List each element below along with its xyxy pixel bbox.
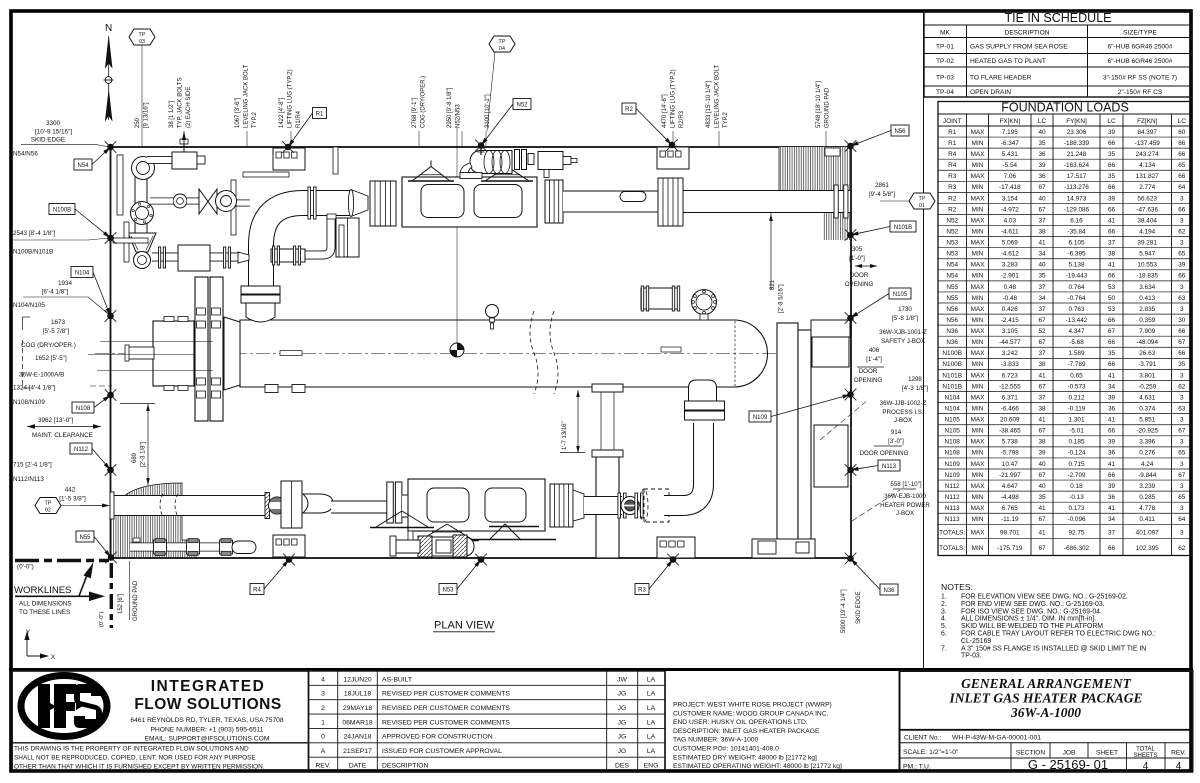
svg-text:DES: DES bbox=[615, 762, 629, 769]
maint clearance arrows bbox=[27, 426, 101, 428]
svg-text:TP-03: TP-03 bbox=[936, 75, 954, 82]
svg-text:REVISED PER CUSTOMER COMMENTS: REVISED PER CUSTOMER COMMENTS bbox=[382, 705, 510, 712]
svg-text:LC: LC bbox=[1107, 118, 1116, 125]
svg-text:OPENING: OPENING bbox=[854, 377, 883, 384]
svg-text:1298: 1298 bbox=[908, 376, 922, 383]
svg-text:1'-7 13/16": 1'-7 13/16" bbox=[562, 421, 568, 450]
svg-text:R4: R4 bbox=[948, 151, 957, 158]
svg-text:FOR CABLE TRAY LAYOUT REFER TO: FOR CABLE TRAY LAYOUT REFER TO ELECTRIC … bbox=[961, 631, 1156, 638]
svg-text:14.973: 14.973 bbox=[1067, 195, 1087, 202]
svg-text:0.374: 0.374 bbox=[1139, 405, 1155, 412]
svg-text:MIN: MIN bbox=[972, 140, 984, 147]
svg-text:CLIENT No.:: CLIENT No.: bbox=[904, 735, 941, 742]
svg-text:01: 01 bbox=[919, 203, 925, 209]
svg-text:50: 50 bbox=[1108, 295, 1116, 302]
svg-text:-4.612: -4.612 bbox=[1001, 251, 1020, 258]
svg-text:N53: N53 bbox=[946, 240, 958, 247]
svg-text:20.609: 20.609 bbox=[1000, 417, 1020, 424]
svg-text:REV.: REV. bbox=[315, 762, 330, 769]
svg-text:38: 38 bbox=[1038, 405, 1046, 412]
svg-text:0.48: 0.48 bbox=[1004, 284, 1017, 291]
pipe box1 to flange block bbox=[563, 191, 660, 213]
svg-text:MK: MK bbox=[940, 30, 950, 37]
vessel centerline bbox=[95, 353, 785, 355]
svg-text:3300: 3300 bbox=[46, 120, 61, 127]
svg-text:18JUL18: 18JUL18 bbox=[344, 691, 371, 698]
svg-text:-163.624: -163.624 bbox=[1064, 162, 1090, 169]
svg-text:62: 62 bbox=[1178, 228, 1186, 235]
svg-text:34: 34 bbox=[1108, 516, 1116, 523]
svg-text:41: 41 bbox=[1038, 372, 1046, 379]
svg-text:MAX: MAX bbox=[971, 328, 986, 335]
svg-text:-6.347: -6.347 bbox=[1001, 140, 1020, 147]
svg-text:FOUNDATION LOADS: FOUNDATION LOADS bbox=[1001, 101, 1129, 115]
svg-text:4.194: 4.194 bbox=[1139, 228, 1155, 235]
svg-text:MAX: MAX bbox=[971, 195, 986, 202]
svg-text:4: 4 bbox=[321, 676, 325, 683]
svg-text:OPENING: OPENING bbox=[845, 281, 874, 288]
svg-text:-17.418: -17.418 bbox=[999, 184, 1021, 191]
svg-text:INLET GAS HEATER PACKAGE: INLET GAS HEATER PACKAGE bbox=[949, 691, 1143, 706]
svg-text:JOINT: JOINT bbox=[943, 118, 962, 125]
svg-text:-20.925: -20.925 bbox=[1136, 428, 1158, 435]
drain drop from top train bbox=[276, 216, 331, 255]
svg-text:COG (DRY/OPER.): COG (DRY/OPER.) bbox=[21, 342, 76, 349]
svg-text:-5.54: -5.54 bbox=[1003, 162, 1018, 169]
svg-text:3: 3 bbox=[321, 691, 325, 698]
svg-text:J-BOX: J-BOX bbox=[896, 510, 914, 517]
tie-in schedule table bbox=[924, 12, 1192, 98]
svg-text:N52: N52 bbox=[516, 102, 528, 108]
svg-text:MIN: MIN bbox=[972, 361, 984, 368]
svg-text:-0.096: -0.096 bbox=[1067, 516, 1086, 523]
svg-text:36W-A-1000: 36W-A-1000 bbox=[1010, 705, 1081, 720]
funnel drain bbox=[128, 233, 156, 252]
svg-text:-11.19: -11.19 bbox=[1001, 516, 1019, 523]
svg-text:64: 64 bbox=[1178, 516, 1186, 523]
svg-text:3.239: 3.239 bbox=[1139, 483, 1155, 490]
svg-text:401.097: 401.097 bbox=[1136, 530, 1160, 537]
svg-text:FOR ISO VIEW SEE DWG. NO.: G-2: FOR ISO VIEW SEE DWG. NO.: G-25169-04. bbox=[961, 608, 1102, 615]
svg-text:67: 67 bbox=[1178, 339, 1186, 346]
svg-text:N104: N104 bbox=[945, 394, 961, 401]
svg-text:41: 41 bbox=[1108, 217, 1116, 224]
svg-text:3.801: 3.801 bbox=[1139, 372, 1155, 379]
svg-text:N109: N109 bbox=[753, 415, 768, 421]
svg-text:CL-25169: CL-25169 bbox=[961, 638, 991, 645]
svg-text:MAX: MAX bbox=[971, 372, 986, 379]
svg-text:66: 66 bbox=[1108, 339, 1116, 346]
svg-text:MAINT. CLEARANCE: MAINT. CLEARANCE bbox=[32, 432, 93, 439]
svg-text:1.: 1. bbox=[941, 594, 947, 601]
svg-text:MAX: MAX bbox=[971, 151, 986, 158]
svg-text:-5.01: -5.01 bbox=[1069, 428, 1084, 435]
svg-text:(2) EACH SIDE: (2) EACH SIDE bbox=[186, 87, 192, 128]
svg-text:1: 1 bbox=[321, 719, 325, 726]
svg-text:38: 38 bbox=[1038, 228, 1046, 235]
process jbox bbox=[814, 425, 848, 487]
svg-text:65: 65 bbox=[1178, 251, 1186, 258]
COG symbol bbox=[450, 343, 464, 357]
svg-text:N52/N53: N52/N53 bbox=[456, 104, 462, 128]
svg-text:4.03: 4.03 bbox=[1004, 217, 1017, 224]
svg-text:37: 37 bbox=[1108, 530, 1116, 537]
svg-text:N55: N55 bbox=[79, 535, 91, 541]
svg-text:FZ[KN]: FZ[KN] bbox=[1137, 118, 1157, 125]
svg-text:152 [6"]: 152 [6"] bbox=[118, 593, 124, 614]
svg-text:X: X bbox=[51, 654, 56, 661]
svg-text:3.283: 3.283 bbox=[1002, 262, 1018, 269]
svg-text:7.06: 7.06 bbox=[1004, 173, 1017, 180]
svg-text:CUSTOMER NAME: WOOD GROUP CANA: CUSTOMER NAME: WOOD GROUP CANADA INC. bbox=[673, 710, 829, 717]
svg-text:3.105: 3.105 bbox=[1002, 328, 1018, 335]
svg-text:[6'-4 1/8"]: [6'-4 1/8"] bbox=[42, 289, 69, 296]
svg-text:06MAR18: 06MAR18 bbox=[342, 719, 372, 726]
svg-text:A 3" 150# SS FLANGE IS INSTALL: A 3" 150# SS FLANGE IS INSTALLED @ SKID … bbox=[961, 645, 1146, 652]
reducer cone bbox=[224, 317, 240, 390]
svg-text:LC: LC bbox=[1178, 118, 1187, 125]
svg-text:34: 34 bbox=[1108, 383, 1116, 390]
svg-text:35: 35 bbox=[1178, 361, 1186, 368]
svg-text:WH-P-43W-M-GA-00001-001: WH-P-43W-M-GA-00001-001 bbox=[952, 735, 1041, 742]
N109 riser elbow bbox=[664, 423, 704, 506]
svg-text:PROCESS I.S.: PROCESS I.S. bbox=[882, 409, 924, 416]
svg-text:40: 40 bbox=[1038, 129, 1046, 136]
svg-text:TP-01: TP-01 bbox=[936, 44, 954, 51]
svg-text:FLOW SOLUTIONS: FLOW SOLUTIONS bbox=[134, 696, 281, 713]
svg-text:-113.276: -113.276 bbox=[1064, 184, 1089, 191]
svg-text:35: 35 bbox=[1108, 151, 1116, 158]
svg-text:66: 66 bbox=[1178, 140, 1186, 147]
svg-text:1.301: 1.301 bbox=[1069, 417, 1085, 424]
svg-text:41: 41 bbox=[1108, 417, 1116, 424]
svg-text:3.634: 3.634 bbox=[1139, 284, 1155, 291]
vessel left nozzle stub bbox=[128, 347, 154, 359]
svg-text:GROUND PAD: GROUND PAD bbox=[825, 87, 831, 128]
svg-text:67: 67 bbox=[1038, 206, 1046, 213]
svg-text:DOOR OPENING: DOOR OPENING bbox=[860, 450, 909, 457]
svg-text:29MAY18: 29MAY18 bbox=[343, 705, 373, 712]
svg-text:0.426: 0.426 bbox=[1002, 306, 1018, 313]
svg-text:FOR END VIEW SEE DWG. NO.: G-2: FOR END VIEW SEE DWG. NO.: G-25169-03. bbox=[961, 601, 1105, 608]
svg-text:CUSTOMER PO#: 10141401-408.0: CUSTOMER PO#: 10141401-408.0 bbox=[673, 746, 779, 753]
svg-text:66: 66 bbox=[1178, 273, 1186, 280]
svg-text:[5'-5 7/8"]: [5'-5 7/8"] bbox=[43, 328, 70, 335]
reducer to box1 bbox=[352, 190, 368, 216]
svg-text:N113: N113 bbox=[945, 516, 960, 523]
svg-text:EMAIL: SUPPORT@IFSOLUTIONS.COM: EMAIL: SUPPORT@IFSOLUTIONS.COM bbox=[145, 736, 270, 743]
svg-text:37: 37 bbox=[1108, 240, 1116, 247]
svg-text:N112: N112 bbox=[945, 494, 960, 501]
svg-text:FOR ELEVATION VIEW SEE DWG. NO: FOR ELEVATION VIEW SEE DWG. NO.: G-25169… bbox=[961, 594, 1128, 601]
drain line along bottom bbox=[130, 543, 242, 552]
svg-text:37: 37 bbox=[1038, 350, 1046, 357]
dashed removable spool bbox=[644, 489, 669, 522]
svg-text:38: 38 bbox=[1038, 439, 1046, 446]
svg-text:-129.086: -129.086 bbox=[1064, 206, 1090, 213]
svg-text:TP: TP bbox=[919, 196, 926, 202]
svg-text:67: 67 bbox=[1038, 428, 1046, 435]
svg-text:N100B: N100B bbox=[942, 361, 962, 368]
svg-text:N54: N54 bbox=[77, 163, 89, 169]
top dim extension lines bbox=[141, 131, 143, 146]
tray top bracket bbox=[811, 320, 850, 337]
svg-text:N55: N55 bbox=[946, 295, 958, 302]
svg-text:2768 [9'-1"]: 2768 [9'-1"] bbox=[412, 97, 418, 128]
svg-text:2.: 2. bbox=[941, 601, 947, 608]
svg-text:0.764: 0.764 bbox=[1069, 284, 1085, 291]
svg-text:A: A bbox=[321, 748, 326, 755]
svg-text:JG: JG bbox=[618, 719, 627, 726]
svg-text:35: 35 bbox=[1108, 173, 1116, 180]
svg-text:END USER: HUSKY OIL OPERATIONS: END USER: HUSKY OIL OPERATIONS LTD. bbox=[673, 719, 808, 726]
heater vessel shell bbox=[240, 320, 768, 387]
svg-text:1422 [4'-8"]: 1422 [4'-8"] bbox=[279, 97, 285, 128]
svg-text:02: 02 bbox=[45, 507, 51, 513]
svg-text:7.: 7. bbox=[941, 645, 947, 652]
svg-text:TP: TP bbox=[45, 500, 52, 506]
svg-text:243.274: 243.274 bbox=[1136, 151, 1160, 158]
svg-text:JOB: JOB bbox=[1063, 750, 1076, 757]
svg-text:0.212: 0.212 bbox=[1069, 394, 1085, 401]
svg-text:36W-E-1000A/B: 36W-E-1000A/B bbox=[19, 372, 64, 379]
svg-text:39: 39 bbox=[1038, 450, 1046, 457]
svg-text:38 [1 1/2"]: 38 [1 1/2"] bbox=[169, 101, 175, 128]
svg-text:ISSUED FOR CUSTOMER APPROVAL: ISSUED FOR CUSTOMER APPROVAL bbox=[382, 748, 502, 755]
svg-text:-0.13: -0.13 bbox=[1069, 494, 1084, 501]
svg-text:N109: N109 bbox=[945, 472, 961, 479]
TP-02 hex bbox=[35, 498, 61, 514]
svg-text:715 [2'-4 1/8"]: 715 [2'-4 1/8"] bbox=[13, 462, 52, 469]
svg-text:30: 30 bbox=[1178, 317, 1186, 324]
XY axis bbox=[26, 636, 28, 656]
svg-text:N55: N55 bbox=[946, 284, 958, 291]
svg-text:102.395: 102.395 bbox=[1136, 545, 1160, 552]
svg-text:3.: 3. bbox=[941, 608, 947, 615]
svg-text:(0'-0"): (0'-0") bbox=[99, 612, 105, 627]
svg-text:HEATER POWER: HEATER POWER bbox=[880, 502, 930, 509]
svg-text:4: 4 bbox=[1143, 761, 1149, 772]
svg-text:4.631: 4.631 bbox=[1139, 394, 1155, 401]
svg-text:37: 37 bbox=[1038, 306, 1046, 313]
svg-text:66: 66 bbox=[1108, 545, 1116, 552]
node dots bbox=[107, 144, 114, 151]
suction pipe end plate bbox=[110, 492, 114, 519]
svg-text:N105: N105 bbox=[893, 292, 908, 298]
svg-text:DOOR: DOOR bbox=[850, 272, 869, 279]
svg-text:N109: N109 bbox=[945, 461, 961, 468]
svg-text:MIN: MIN bbox=[972, 383, 984, 390]
TP-01 hex bbox=[909, 193, 935, 209]
svg-text:N100B/N101B: N100B/N101B bbox=[13, 249, 53, 256]
left manifold cluster bbox=[135, 165, 148, 235]
svg-text:21SEP17: 21SEP17 bbox=[343, 748, 372, 755]
svg-text:N105: N105 bbox=[945, 428, 961, 435]
svg-text:7.195: 7.195 bbox=[1002, 129, 1018, 136]
svg-text:36: 36 bbox=[1108, 450, 1116, 457]
svg-text:2.835: 2.835 bbox=[1139, 306, 1155, 313]
relief valve assy on box1 bbox=[470, 151, 512, 174]
svg-text:FX[KN]: FX[KN] bbox=[999, 118, 1020, 125]
svg-text:-3.791: -3.791 bbox=[1138, 361, 1157, 368]
gate valve cones bbox=[199, 189, 208, 214]
svg-text:R2/R3: R2/R3 bbox=[679, 110, 685, 128]
svg-text:G - 25169- 01: G - 25169- 01 bbox=[1028, 757, 1108, 772]
svg-text:OPEN DRAIN: OPEN DRAIN bbox=[970, 89, 1011, 96]
svg-text:41: 41 bbox=[1108, 262, 1116, 269]
svg-text:R1: R1 bbox=[948, 140, 957, 147]
cable tray columns bbox=[777, 323, 798, 545]
vessel saddle column right bbox=[596, 455, 619, 558]
svg-text:66: 66 bbox=[1108, 273, 1116, 280]
svg-text:40: 40 bbox=[1038, 461, 1046, 468]
svg-text:MIN: MIN bbox=[972, 273, 984, 280]
svg-text:DESCRIPTION: DESCRIPTION bbox=[1004, 30, 1049, 37]
svg-text:3.242: 3.242 bbox=[1002, 350, 1018, 357]
svg-text:-0.124: -0.124 bbox=[1067, 450, 1086, 457]
svg-text:REVISED PER CUSTOMER COMMENTS: REVISED PER CUSTOMER COMMENTS bbox=[382, 691, 510, 698]
svg-text:4: 4 bbox=[1176, 761, 1182, 772]
svg-text:N101B: N101B bbox=[894, 225, 912, 231]
svg-text:3.154: 3.154 bbox=[1002, 195, 1018, 202]
svg-text:406: 406 bbox=[869, 347, 880, 354]
svg-text:821: 821 bbox=[770, 279, 776, 290]
svg-text:63: 63 bbox=[1178, 295, 1186, 302]
revision table bbox=[309, 671, 666, 772]
svg-text:-0.764: -0.764 bbox=[1067, 295, 1086, 302]
svg-text:TP-04: TP-04 bbox=[936, 89, 954, 96]
svg-text:39: 39 bbox=[1108, 195, 1116, 202]
svg-text:MIN: MIN bbox=[972, 206, 984, 213]
svg-text:38: 38 bbox=[1108, 251, 1116, 258]
svg-text:[4'-3 1/8"]: [4'-3 1/8"] bbox=[902, 385, 928, 392]
svg-text:-686.302: -686.302 bbox=[1064, 545, 1090, 552]
svg-text:-13.442: -13.442 bbox=[1066, 317, 1088, 324]
svg-text:305: 305 bbox=[852, 246, 863, 253]
svg-text:40: 40 bbox=[1038, 262, 1046, 269]
svg-text:39: 39 bbox=[1108, 483, 1116, 490]
svg-text:DESCRIPTION: INLET GAS HEATER: DESCRIPTION: INLET GAS HEATER PACKAGE bbox=[673, 728, 820, 735]
vessel main flange pair bbox=[195, 277, 208, 421]
svg-text:SECTION: SECTION bbox=[1016, 750, 1046, 757]
svg-text:R1: R1 bbox=[316, 111, 324, 117]
worklines arrows bbox=[79, 570, 89, 596]
svg-text:689: 689 bbox=[132, 452, 138, 463]
svg-text:R4: R4 bbox=[948, 162, 957, 169]
svg-text:N52: N52 bbox=[946, 228, 958, 235]
svg-text:53: 53 bbox=[1108, 284, 1116, 291]
svg-text:-4.611: -4.611 bbox=[1001, 228, 1019, 235]
svg-text:ALL DIMENSIONS ± 1/4". DIM. IN: ALL DIMENSIONS ± 1/4". DIM. IN mm[ft-in]… bbox=[961, 616, 1096, 623]
svg-text:4.: 4. bbox=[941, 616, 947, 623]
company box bbox=[12, 671, 309, 772]
svg-text:TYP.2: TYP.2 bbox=[252, 111, 258, 128]
svg-text:36: 36 bbox=[1038, 151, 1046, 158]
N52 vent stem bbox=[480, 148, 482, 155]
svg-text:MAX: MAX bbox=[971, 240, 986, 247]
svg-text:39.281: 39.281 bbox=[1137, 240, 1157, 247]
svg-text:LIFTING LUG (TYP.2): LIFTING LUG (TYP.2) bbox=[671, 69, 677, 128]
svg-text:5900 [19'-4 1/4"]: 5900 [19'-4 1/4"] bbox=[841, 589, 847, 633]
safety jbox bbox=[812, 337, 849, 367]
svg-text:-2.709: -2.709 bbox=[1067, 472, 1086, 479]
svg-text:LC: LC bbox=[1038, 118, 1047, 125]
svg-text:MAX: MAX bbox=[971, 129, 986, 136]
svg-text:66: 66 bbox=[1108, 140, 1116, 147]
svg-text:ENG: ENG bbox=[644, 762, 659, 769]
svg-text:66: 66 bbox=[1178, 328, 1186, 335]
svg-text:N54: N54 bbox=[946, 262, 958, 269]
svg-text:4.778: 4.778 bbox=[1139, 505, 1155, 512]
svg-text:41: 41 bbox=[1108, 505, 1116, 512]
svg-text:66: 66 bbox=[1108, 228, 1116, 235]
svg-text:N36: N36 bbox=[883, 588, 895, 594]
svg-text:MIN: MIN bbox=[972, 228, 984, 235]
svg-text:[1'-4"]: [1'-4"] bbox=[866, 356, 882, 363]
svg-text:R3: R3 bbox=[948, 184, 957, 191]
svg-text:N56: N56 bbox=[946, 317, 958, 324]
svg-text:MIN: MIN bbox=[972, 494, 984, 501]
bottom edge pads bbox=[273, 535, 305, 557]
right panel divider bbox=[923, 10, 925, 669]
bottom suction pipe over hatch bbox=[112, 495, 268, 516]
svg-text:39: 39 bbox=[1108, 129, 1116, 136]
svg-text:TAG NUMBER: 36W-A-1000: TAG NUMBER: 36W-A-1000 bbox=[673, 737, 759, 744]
svg-text:[9'-4 5/8"]: [9'-4 5/8"] bbox=[869, 191, 895, 198]
svg-text:5.: 5. bbox=[941, 623, 947, 630]
dim 689 bbox=[147, 404, 149, 485]
svg-text:66: 66 bbox=[1178, 151, 1186, 158]
svg-text:6"-HUB 6GR46 2500#: 6"-HUB 6GR46 2500# bbox=[1107, 44, 1172, 51]
svg-text:-3.833: -3.833 bbox=[1001, 361, 1020, 368]
vessel break lines bbox=[530, 311, 538, 394]
top edge pads bbox=[273, 148, 305, 170]
svg-text:LA: LA bbox=[647, 748, 656, 755]
svg-text:R2: R2 bbox=[948, 195, 957, 202]
svg-text:98.701: 98.701 bbox=[1000, 530, 1020, 537]
svg-text:N104: N104 bbox=[945, 405, 961, 412]
svg-text:MIN: MIN bbox=[972, 545, 984, 552]
svg-text:03: 03 bbox=[139, 39, 145, 45]
svg-text:67: 67 bbox=[1038, 184, 1046, 191]
svg-text:N101B: N101B bbox=[942, 383, 962, 390]
svg-text:-0.259: -0.259 bbox=[1138, 383, 1157, 390]
right small dim arrows bbox=[855, 265, 877, 267]
svg-text:-4.498: -4.498 bbox=[1001, 494, 1020, 501]
svg-text:N101B: N101B bbox=[942, 372, 962, 379]
svg-text:REV.: REV. bbox=[1171, 750, 1186, 757]
svg-text:SKID EDGE: SKID EDGE bbox=[856, 591, 862, 624]
svg-text:23.306: 23.306 bbox=[1067, 129, 1087, 136]
svg-text:MIN: MIN bbox=[972, 516, 984, 523]
svg-text:N108/N109: N108/N109 bbox=[13, 399, 45, 406]
svg-text:0.18: 0.18 bbox=[1070, 483, 1083, 490]
svg-text:SHEETS: SHEETS bbox=[1133, 753, 1157, 759]
svg-text:DESCRIPTION: DESCRIPTION bbox=[382, 762, 429, 769]
svg-text:SKID EDGE: SKID EDGE bbox=[31, 137, 65, 144]
box2 (bottom heater unit) bbox=[408, 479, 545, 531]
svg-text:LEVELING JACK BOLT: LEVELING JACK BOLT bbox=[715, 64, 721, 128]
svg-text:442: 442 bbox=[65, 487, 76, 494]
vessel cap tangent bbox=[734, 321, 736, 386]
svg-text:-18.835: -18.835 bbox=[1136, 273, 1158, 280]
svg-text:7.909: 7.909 bbox=[1139, 328, 1155, 335]
svg-text:39: 39 bbox=[1178, 262, 1186, 269]
svg-text:6.16: 6.16 bbox=[1070, 217, 1083, 224]
svg-text:N113: N113 bbox=[882, 464, 897, 470]
svg-text:MIN: MIN bbox=[972, 162, 984, 169]
svg-text:SKID WILL BE WELDED TO THE PLA: SKID WILL BE WELDED TO THE PLATFORM bbox=[961, 623, 1103, 630]
